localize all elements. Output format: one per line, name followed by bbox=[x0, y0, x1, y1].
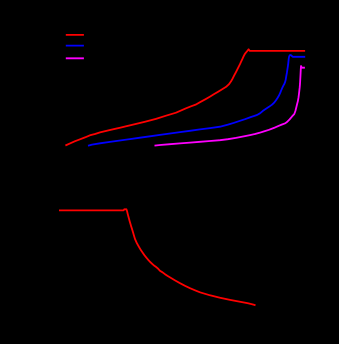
legend swatch magenta bbox=[66, 57, 84, 59]
bottom panel red curve bbox=[59, 209, 256, 305]
top panel red curve bbox=[65, 49, 305, 145]
top panel magenta curve bbox=[155, 66, 305, 146]
legend swatch red bbox=[66, 34, 84, 36]
top panel blue curve bbox=[88, 55, 305, 146]
legend swatch blue bbox=[66, 45, 84, 47]
